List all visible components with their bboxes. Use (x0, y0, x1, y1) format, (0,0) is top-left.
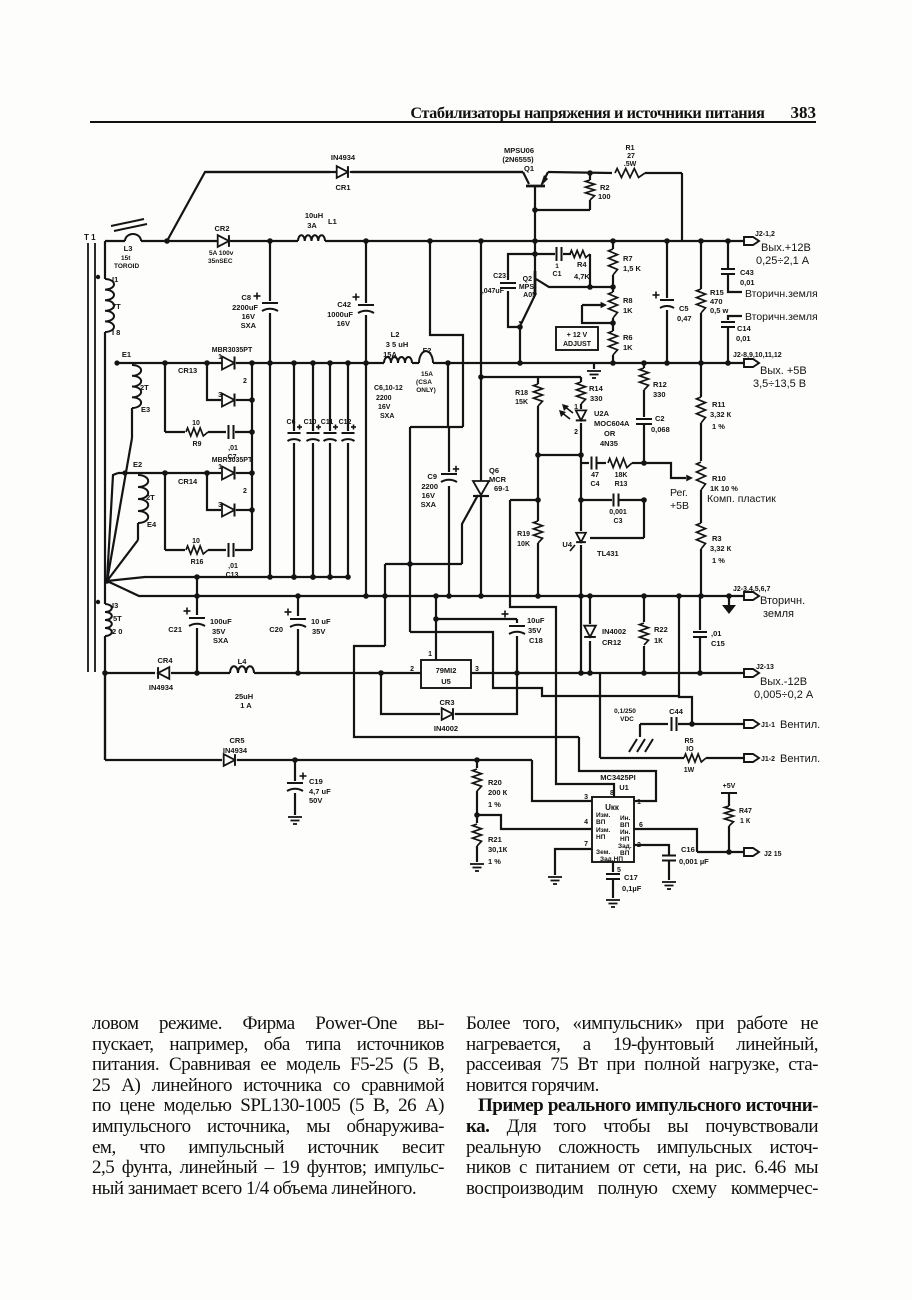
svg-text:18K: 18K (615, 472, 628, 479)
svg-text:CR2: CR2 (214, 224, 229, 233)
svg-text:Вторичн.земля: Вторичн.земля (745, 288, 818, 300)
svg-text:1 %: 1 % (712, 556, 725, 565)
svg-text:C17: C17 (624, 873, 638, 882)
svg-text:ВП: ВП (596, 819, 606, 826)
svg-text:C42: C42 (337, 300, 351, 309)
svg-text:15K: 15K (515, 399, 528, 406)
svg-text:1,5 K: 1,5 K (623, 264, 642, 273)
svg-text:Вентил.: Вентил. (780, 753, 820, 765)
svg-text:IN4934: IN4934 (331, 153, 356, 162)
svg-text:U5: U5 (441, 677, 451, 686)
svg-text:2T: 2T (140, 383, 149, 392)
svg-text:L1: L1 (328, 217, 337, 226)
svg-text:(2N6555): (2N6555) (502, 155, 534, 164)
svg-text:Изм.: Изм. (596, 827, 611, 834)
svg-text:R2: R2 (600, 183, 610, 192)
svg-text:J2 15: J2 15 (764, 851, 782, 858)
svg-text:Q1: Q1 (524, 164, 534, 173)
svg-text:R47: R47 (739, 808, 752, 815)
svg-text:3 5 uH: 3 5 uH (386, 340, 409, 349)
svg-text:100uF: 100uF (210, 617, 232, 626)
svg-text:Вентил.: Вентил. (780, 719, 820, 731)
svg-text:0,1/250: 0,1/250 (614, 708, 636, 715)
svg-text:MPS: MPS (519, 284, 535, 291)
svg-text:Изм.: Изм. (596, 812, 611, 819)
svg-text:Вых.-12В: Вых.-12В (760, 676, 807, 688)
svg-text:R4: R4 (577, 260, 587, 269)
svg-text:J2-8,9,10,11,12: J2-8,9,10,11,12 (733, 352, 782, 359)
svg-text:Ин.: Ин. (620, 829, 631, 836)
svg-text:16V: 16V (378, 404, 391, 411)
svg-text:R7: R7 (623, 254, 633, 263)
svg-text:8: 8 (610, 790, 614, 797)
svg-text:L2: L2 (391, 330, 400, 339)
svg-text:1 %: 1 % (488, 800, 501, 809)
svg-text:1: 1 (218, 354, 222, 361)
svg-text:0,1µF: 0,1µF (622, 884, 642, 893)
svg-text:10: 10 (192, 538, 200, 545)
svg-text:MPSU06: MPSU06 (504, 146, 534, 155)
svg-text:+ 12 V: + 12 V (567, 332, 588, 339)
svg-text:R13: R13 (615, 481, 628, 488)
svg-text:2T: 2T (146, 493, 155, 502)
svg-text:TOROID: TOROID (114, 263, 139, 270)
svg-text:,01: ,01 (228, 563, 238, 570)
svg-text:SXA: SXA (380, 413, 394, 420)
svg-text:R1: R1 (626, 145, 635, 152)
svg-text:15A: 15A (383, 350, 397, 359)
svg-text:0,01: 0,01 (736, 334, 751, 343)
svg-text:15A: 15A (421, 371, 433, 378)
svg-text:J1-1: J1-1 (761, 722, 775, 729)
svg-text:SXA: SXA (421, 500, 437, 509)
svg-text:Комп. пластик: Комп. пластик (707, 493, 776, 505)
svg-text:IN4934: IN4934 (149, 683, 174, 692)
svg-text:50V: 50V (309, 796, 322, 805)
svg-text:C4: C4 (591, 481, 600, 488)
svg-text:16V: 16V (337, 319, 350, 328)
svg-text:R9: R9 (193, 441, 202, 448)
svg-text:T 1: T 1 (84, 233, 96, 242)
svg-text:0,25÷2,1 А: 0,25÷2,1 А (756, 255, 810, 267)
svg-text:2: 2 (243, 488, 247, 495)
svg-text:J1-2: J1-2 (761, 756, 775, 763)
svg-text:Вых. +5В: Вых. +5В (760, 365, 807, 377)
svg-text:3,32 К: 3,32 К (710, 410, 732, 419)
svg-text:1: 1 (218, 464, 222, 471)
svg-text:R15: R15 (710, 288, 724, 297)
svg-text:0,001: 0,001 (609, 509, 627, 516)
svg-text:35nSEC: 35nSEC (208, 258, 233, 265)
svg-text:MOC604A: MOC604A (594, 419, 630, 428)
svg-text:C6,10-12: C6,10-12 (374, 385, 403, 392)
svg-text:Ин.: Ин. (620, 815, 631, 822)
svg-text:0,47: 0,47 (677, 314, 692, 323)
svg-text:IN4934: IN4934 (223, 746, 248, 755)
svg-text:MCR: MCR (489, 475, 507, 484)
svg-text:+5V: +5V (723, 783, 736, 790)
svg-text:Q6: Q6 (489, 466, 499, 475)
svg-text:E2: E2 (133, 460, 142, 469)
svg-text:30,1К: 30,1К (488, 845, 508, 854)
svg-text:C5: C5 (679, 304, 689, 313)
svg-text:IN4002: IN4002 (434, 724, 458, 733)
svg-text:,01: ,01 (711, 629, 721, 638)
svg-text:+5В: +5В (670, 500, 689, 512)
svg-text:C43: C43 (740, 268, 754, 277)
svg-text:CR4: CR4 (157, 656, 173, 665)
svg-text:1: 1 (428, 651, 432, 658)
svg-text:(CSA: (CSA (416, 379, 432, 386)
svg-text:C18: C18 (529, 636, 543, 645)
svg-text:R10: R10 (712, 474, 726, 483)
svg-text:69-1: 69-1 (494, 484, 509, 493)
svg-text:U1: U1 (619, 783, 629, 792)
svg-text:2200uF: 2200uF (232, 303, 258, 312)
svg-text:F2: F2 (423, 346, 432, 355)
svg-text:10 uF: 10 uF (311, 617, 331, 626)
svg-text:R21: R21 (488, 835, 502, 844)
svg-text:16V: 16V (242, 312, 255, 321)
svg-text:1К: 1К (654, 636, 663, 645)
svg-text:R16: R16 (191, 559, 204, 566)
svg-text:L3: L3 (124, 244, 133, 253)
svg-text:MC3425PI: MC3425PI (600, 773, 635, 782)
svg-text:1 %: 1 % (488, 857, 501, 866)
svg-text:2200: 2200 (421, 482, 438, 491)
svg-text:16V: 16V (422, 491, 435, 500)
svg-text:5: 5 (617, 867, 621, 874)
svg-text:НП: НП (620, 836, 630, 843)
svg-text:2 0: 2 0 (112, 627, 122, 636)
svg-text:R18: R18 (515, 390, 528, 397)
svg-text:5T: 5T (113, 614, 122, 623)
svg-text:MBR3035PT: MBR3035PT (212, 347, 253, 354)
svg-text:,01: ,01 (228, 445, 238, 452)
svg-text:1 A: 1 A (240, 701, 252, 710)
svg-text:7T: 7T (112, 302, 121, 311)
svg-text:Зад.: Зад. (618, 843, 632, 850)
svg-text:2: 2 (410, 666, 414, 673)
svg-text:35V: 35V (212, 627, 225, 636)
svg-text:3A: 3A (307, 221, 317, 230)
svg-text:TL431: TL431 (597, 549, 619, 558)
svg-text:CR14: CR14 (178, 477, 198, 486)
svg-text:1: 1 (574, 404, 578, 411)
svg-text:R3: R3 (712, 534, 722, 543)
svg-text:Uкк: Uкк (605, 803, 620, 812)
svg-text:C20: C20 (269, 625, 283, 634)
svg-text:R11: R11 (712, 400, 725, 409)
svg-text:3,32 К: 3,32 К (710, 544, 732, 553)
svg-text:R20: R20 (488, 778, 502, 787)
svg-text:J2-1,2: J2-1,2 (755, 231, 775, 238)
svg-text:1K: 1K (623, 343, 633, 352)
svg-text:OR: OR (604, 429, 616, 438)
svg-text:1К 10 %: 1К 10 % (710, 484, 738, 493)
svg-text:C11: C11 (321, 419, 334, 426)
svg-text:R14: R14 (589, 384, 604, 393)
svg-text:IN4002: IN4002 (602, 627, 626, 636)
svg-text:0,5 w: 0,5 w (710, 306, 729, 315)
svg-text:200 К: 200 К (488, 788, 508, 797)
svg-text:10uH: 10uH (305, 211, 323, 220)
svg-text:1W: 1W (684, 767, 695, 774)
svg-text:IO: IO (686, 746, 694, 753)
svg-text:R6: R6 (623, 333, 633, 342)
svg-text:7: 7 (584, 841, 588, 848)
svg-text:470: 470 (710, 297, 723, 306)
svg-text:R22: R22 (654, 625, 668, 634)
svg-text:CR3: CR3 (439, 698, 454, 707)
svg-text:.5W: .5W (624, 161, 637, 168)
svg-text:Зем.: Зем. (596, 849, 610, 856)
svg-text:НП: НП (596, 834, 606, 841)
svg-text:CR1: CR1 (335, 183, 350, 192)
svg-text:ONLY): ONLY) (416, 387, 436, 394)
svg-text:CR12: CR12 (602, 638, 621, 647)
svg-text:VDC: VDC (620, 716, 634, 723)
svg-text:C21: C21 (168, 625, 182, 634)
svg-text:ADJUST: ADJUST (563, 341, 592, 348)
svg-text:Вторичн.: Вторичн. (760, 595, 805, 607)
svg-text:330: 330 (590, 394, 603, 403)
svg-text:A05: A05 (523, 292, 536, 299)
svg-text:Рег.: Рег. (670, 487, 688, 499)
svg-text:R8: R8 (623, 296, 633, 305)
svg-text:I3: I3 (112, 601, 118, 610)
svg-text:U4: U4 (562, 540, 572, 549)
svg-text:0,068: 0,068 (651, 425, 670, 434)
svg-text:C3: C3 (614, 518, 623, 525)
svg-text:1K: 1K (623, 306, 633, 315)
svg-text:C8: C8 (241, 293, 251, 302)
svg-text:79MI2: 79MI2 (436, 666, 457, 675)
svg-text:330: 330 (653, 390, 666, 399)
svg-text:Q2: Q2 (523, 276, 532, 283)
svg-text:SXA: SXA (213, 636, 229, 645)
svg-text:C10: C10 (304, 419, 317, 426)
svg-text:U2A: U2A (594, 409, 610, 418)
svg-text:1: 1 (555, 263, 559, 270)
svg-text:0,01: 0,01 (740, 278, 755, 287)
svg-text:C6: C6 (287, 419, 296, 426)
svg-text:CR13: CR13 (178, 366, 197, 375)
svg-text:R5: R5 (685, 738, 694, 745)
svg-text:C12: C12 (339, 419, 352, 426)
svg-text:C19: C19 (309, 777, 323, 786)
svg-text:C15: C15 (711, 639, 725, 648)
svg-text:4: 4 (584, 819, 588, 826)
svg-text:2: 2 (574, 429, 578, 436)
svg-text:CR5: CR5 (229, 736, 244, 745)
svg-text:0,005÷0,2 А: 0,005÷0,2 А (754, 689, 814, 701)
svg-text:E4: E4 (147, 520, 157, 529)
svg-text:C44: C44 (669, 707, 684, 716)
svg-text:J2-13: J2-13 (756, 664, 774, 671)
svg-text:J2-3,4,5,6,7: J2-3,4,5,6,7 (733, 586, 770, 593)
svg-text:25uH: 25uH (235, 692, 253, 701)
svg-text:C9: C9 (427, 472, 437, 481)
svg-text:10: 10 (192, 420, 200, 427)
svg-text:4,7K: 4,7K (574, 272, 590, 281)
svg-text:Вых.+12В: Вых.+12В (761, 242, 811, 254)
svg-text:10uF: 10uF (527, 616, 545, 625)
svg-text:I1: I1 (112, 275, 118, 284)
svg-text:15t: 15t (121, 255, 131, 262)
svg-text:C1: C1 (553, 271, 562, 278)
svg-text:3: 3 (584, 794, 588, 801)
svg-text:1: 1 (637, 799, 641, 806)
svg-text:0,001 µF: 0,001 µF (679, 857, 709, 866)
svg-text:10K: 10K (517, 541, 530, 548)
svg-text:2: 2 (243, 378, 247, 385)
svg-text:4N35: 4N35 (600, 439, 618, 448)
svg-text:27: 27 (627, 153, 635, 160)
svg-text:35V: 35V (528, 626, 541, 635)
svg-text:Вторичн.земля: Вторичн.земля (745, 311, 818, 323)
svg-text:C2: C2 (655, 414, 665, 423)
svg-text:3,5÷13,5 В: 3,5÷13,5 В (753, 378, 806, 390)
svg-text:47: 47 (591, 472, 599, 479)
svg-text:ВП: ВП (620, 822, 630, 829)
svg-text:,047uF: ,047uF (482, 288, 505, 295)
svg-text:C23: C23 (493, 273, 506, 280)
svg-text:E1: E1 (122, 350, 131, 359)
svg-text:MBR3035PT: MBR3035PT (212, 457, 253, 464)
svg-text:земля: земля (763, 608, 794, 620)
svg-text:I 8: I 8 (112, 328, 120, 337)
svg-text:5A 100v: 5A 100v (209, 250, 234, 257)
svg-text:35V: 35V (312, 627, 325, 636)
svg-text:1 К: 1 К (740, 818, 751, 825)
svg-text:1000uF: 1000uF (327, 310, 353, 319)
svg-text:E3: E3 (141, 405, 150, 414)
svg-text:1 %: 1 % (712, 422, 725, 431)
svg-text:2200: 2200 (376, 395, 392, 402)
svg-text:C14: C14 (737, 324, 752, 333)
svg-text:C16: C16 (681, 845, 695, 854)
svg-text:4,7 uF: 4,7 uF (309, 787, 331, 796)
svg-text:R19: R19 (517, 531, 530, 538)
svg-text:Зад.НП: Зад.НП (600, 856, 623, 863)
svg-text:L4: L4 (238, 657, 248, 666)
svg-text:SXA: SXA (241, 321, 257, 330)
svg-text:R12: R12 (653, 380, 667, 389)
svg-text:100: 100 (598, 192, 611, 201)
